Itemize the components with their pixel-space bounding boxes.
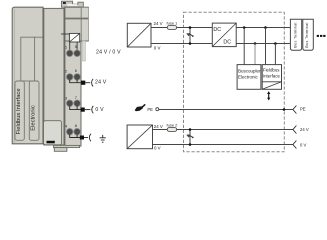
svg-text:7: 7	[75, 96, 77, 100]
column band line	[65, 18, 88, 20]
internal supply rail bottom	[236, 43, 290, 45]
svg-text:6: 6	[75, 69, 77, 73]
terminal column	[65, 7, 81, 146]
node on PE wire	[283, 108, 286, 111]
dashed isolation box	[184, 12, 285, 152]
internal supply rail top	[236, 27, 290, 29]
protection diode D1	[187, 26, 194, 45]
svg-text:Bus Terminal: Bus Terminal	[305, 22, 309, 47]
power contact pair 3	[66, 100, 80, 107]
svg-text:5: 5	[75, 45, 77, 49]
label window slot	[47, 141, 55, 144]
fuse F1	[167, 26, 177, 30]
24V wire top	[151, 27, 212, 29]
svg-text:PE: PE	[300, 107, 306, 112]
DIN rail base strip	[54, 145, 80, 147]
cap extension panel	[81, 8, 88, 41]
svg-text:DC: DC	[223, 39, 231, 45]
svg-text:fuse 2: fuse 2	[167, 122, 179, 127]
label strip Fieldbus Interface	[15, 81, 24, 140]
pair 2 edge contact square	[81, 81, 85, 85]
bus coupler body left block	[12, 7, 43, 144]
power contact pair 4	[66, 128, 80, 135]
terminal pin numbers 1 5	[65, 45, 77, 50]
PE callout bracket	[293, 106, 297, 114]
svg-text:0 V: 0 V	[300, 142, 306, 147]
svg-text:Fieldbus Interface: Fieldbus Interface	[16, 88, 22, 134]
protection diode D2	[187, 128, 194, 146]
svg-text:Bus Terminal: Bus Terminal	[293, 22, 297, 47]
svg-text:Interface: Interface	[263, 74, 281, 79]
svg-text:fuse 1: fuse 1	[167, 20, 179, 25]
power contact pair 2	[66, 74, 80, 81]
fieldbus data arrow	[267, 91, 270, 100]
svg-text:4: 4	[65, 124, 67, 128]
svg-text:24 V / 0 V: 24 V / 0 V	[96, 49, 121, 55]
label strip Electronic	[29, 81, 39, 140]
0V wire top	[151, 43, 212, 45]
svg-text:DC: DC	[213, 27, 221, 33]
pair 4 connector wire	[70, 135, 80, 138]
terminal pin numbers 3 7	[65, 96, 77, 101]
pair 1 risers	[70, 42, 77, 51]
svg-text:0 V: 0 V	[95, 107, 104, 113]
pair 4 edge contact square	[80, 136, 84, 140]
24V callout bracket right	[293, 126, 297, 134]
0V power wire bottom	[153, 144, 293, 146]
Buscoupler Electronic box	[237, 65, 261, 90]
feed wire 3	[265, 28, 267, 65]
svg-text:Buscoupler: Buscoupler	[238, 69, 261, 74]
PSU 2	[127, 125, 152, 149]
24V callout bracket	[92, 79, 94, 87]
Bus Terminal 1	[290, 19, 301, 50]
svg-text:Fieldbus: Fieldbus	[263, 67, 280, 72]
svg-text:2: 2	[65, 69, 67, 73]
feed stub wire	[61, 33, 69, 35]
wire to ground callout	[84, 137, 88, 139]
svg-text:PE: PE	[147, 107, 153, 112]
DIN rail foot bar	[54, 148, 67, 152]
svg-text:3: 3	[65, 96, 67, 100]
feed wire 1	[243, 28, 245, 65]
0V callout bracket right	[293, 141, 297, 149]
svg-text:Electronic: Electronic	[238, 74, 259, 79]
pair 3 edge contact square	[81, 108, 85, 112]
wire to 0V callout	[85, 109, 91, 111]
pair 2 connector wire	[70, 80, 81, 83]
PE wire	[159, 109, 293, 111]
svg-text:24 V: 24 V	[154, 124, 163, 129]
svg-text:8: 8	[75, 124, 77, 128]
pair 3 connector wire	[70, 106, 81, 109]
wire to 24V callout	[85, 82, 90, 84]
svg-text:Electronic: Electronic	[30, 105, 36, 131]
Bus Terminal 2	[303, 19, 314, 50]
indicator window	[69, 33, 79, 42]
svg-text:24 V: 24 V	[300, 127, 309, 132]
feed wire 4	[274, 44, 276, 65]
continuation dots	[317, 35, 326, 37]
ground callout bracket	[89, 134, 91, 142]
svg-text:24 V: 24 V	[154, 21, 163, 26]
DIN rail latch tab	[62, 1, 84, 7]
PE terminal circle	[156, 108, 159, 111]
fuse F2	[167, 128, 177, 132]
svg-text:0 V: 0 V	[154, 146, 161, 151]
DC/DC converter U1	[212, 23, 236, 46]
24V power wire bottom	[153, 129, 293, 131]
Fieldbus Interface box	[262, 65, 281, 90]
PSU 1	[127, 23, 151, 47]
power contact pair 1	[66, 50, 80, 57]
node dots on rails	[243, 26, 277, 45]
label window	[44, 121, 62, 145]
terminal pin numbers 2 6	[65, 69, 77, 74]
svg-text:1: 1	[65, 46, 67, 50]
ground symbol	[100, 135, 106, 142]
contact cover strip	[83, 41, 86, 61]
cap inner edge line	[80, 7, 82, 41]
0V callout bracket	[92, 106, 94, 114]
svg-text:24 V: 24 V	[95, 79, 107, 85]
feed wire 2	[254, 44, 256, 65]
svg-text:0 V: 0 V	[154, 45, 161, 50]
terminal column top cap	[65, 7, 88, 41]
terminal pin numbers 4 8	[65, 124, 77, 128]
PE earth symbol	[135, 104, 146, 111]
coupler front flap	[21, 37, 43, 81]
bus coupler middle block	[44, 8, 64, 145]
